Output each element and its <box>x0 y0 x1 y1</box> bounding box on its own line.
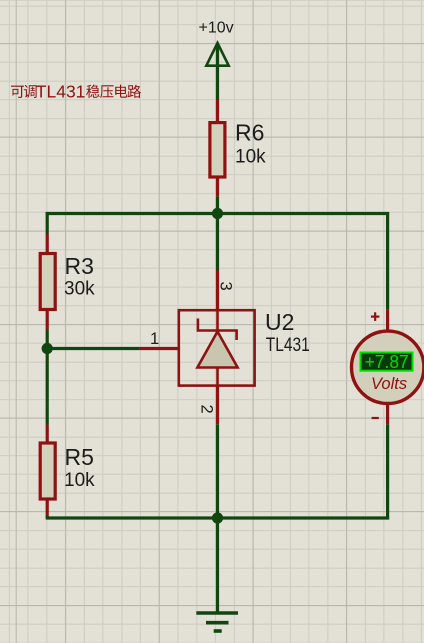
wire: R6 bottom to top rail <box>216 197 219 214</box>
pin wire: R5 bottom pin <box>46 499 49 517</box>
label + (voltmeter) <box>371 316 380 318</box>
wire: top rail to U2 pin 3 <box>216 214 219 271</box>
ground <box>196 611 238 615</box>
junction: ref node <box>42 343 53 354</box>
wire: right branch down to voltmeter <box>386 212 389 309</box>
wire: top horizontal rail <box>46 212 389 215</box>
pin wire: voltmeter - pin <box>386 405 389 425</box>
pin wire: R3 top pin <box>46 234 49 253</box>
svg-text:10k: 10k <box>64 470 95 491</box>
svg-text:3: 3 <box>217 282 235 291</box>
wire: R5 bottom corner to bottom rail <box>46 516 49 518</box>
voltmeter display <box>361 353 413 371</box>
svg-text:R5: R5 <box>65 444 94 470</box>
pin wire: R5 top pin <box>46 425 49 444</box>
svg-text:R6: R6 <box>235 120 264 146</box>
pin wire: voltmeter + pin <box>386 309 389 330</box>
op-amp U2 TL431 body box <box>179 310 255 385</box>
wire: ref junction to U2 pin 1 <box>47 347 139 350</box>
pin wire: U2 pin 3 (cathode) <box>216 271 219 312</box>
U2 internal anode lead <box>216 368 219 386</box>
svg-text:Volts: Volts <box>371 375 407 393</box>
wire: left branch down to R3 <box>46 212 49 234</box>
label - (voltmeter) <box>372 417 379 419</box>
svg-text:TL431: TL431 <box>36 82 86 102</box>
U2 internal cathode lead <box>216 310 219 330</box>
svg-text:2: 2 <box>197 405 215 414</box>
junction: top rail / R6 <box>212 208 223 219</box>
svg-text:10k: 10k <box>235 147 266 168</box>
svg-text:+10v: +10v <box>199 20 234 37</box>
svg-text:+7.87: +7.87 <box>365 351 409 372</box>
resistor R5 <box>40 443 55 499</box>
resistor R3 <box>40 254 55 310</box>
wire: R5 branch, ref junction down <box>46 349 49 425</box>
U2 zener triangle <box>197 332 237 368</box>
title text 可调TL431稳压电路 <box>11 82 141 102</box>
svg-text:R3: R3 <box>65 253 94 279</box>
junction: bottom rail / anode <box>212 512 223 523</box>
pin wire: U2 pin 1 (ref) <box>140 347 179 350</box>
svg-text:U2: U2 <box>265 309 294 335</box>
resistor R6 <box>210 123 225 177</box>
power terminal +10v arrow <box>206 43 228 66</box>
wire: R3 bottom to ref junction <box>46 330 49 349</box>
svg-text:30k: 30k <box>64 279 95 300</box>
wire: voltmeter to bottom rail <box>386 424 389 519</box>
wire: U2 anode down to bottom rail <box>216 424 219 518</box>
U2 cathode bar with bent ends <box>198 319 237 341</box>
voltmeter body <box>352 331 424 403</box>
pin wire: R6 top pin <box>216 100 219 122</box>
wire: +10v power rail vertical <box>216 45 219 100</box>
pin wire: R3 bottom pin <box>46 311 49 330</box>
pin wire: U2 pin 2 (anode) <box>216 386 219 425</box>
svg-text:1: 1 <box>150 330 159 348</box>
wire: bottom horizontal rail <box>46 516 389 519</box>
pin wire: R6 bottom pin <box>216 179 219 197</box>
wire: ground stem <box>216 518 219 613</box>
svg-text:TL431: TL431 <box>266 334 310 356</box>
